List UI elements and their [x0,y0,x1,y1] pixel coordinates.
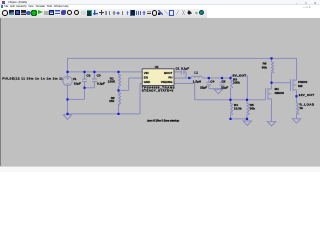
svg-text:1k: 1k [299,106,303,110]
svg-text:NMOS: NMOS [275,90,284,94]
svg-text:10µF: 10µF [74,81,81,85]
svg-text:GND: GND [144,80,150,84]
svg-text:C3: C3 [97,73,101,77]
svg-text:V1: V1 [73,76,77,80]
svg-text:BOOT: BOOT [164,71,173,75]
svg-text:.tran 0 15m 0 2ms startup: .tran 0 15m 0 2ms startup [147,118,180,122]
svg-text:U1: U1 [155,65,159,69]
svg-text:0.1µF: 0.1µF [97,81,105,85]
svg-text:M2: M2 [298,83,303,87]
svg-text:100k: 100k [233,80,240,84]
svg-text:12V_OUT: 12V_OUT [299,93,315,97]
svg-text:L1: L1 [194,70,198,74]
svg-text:C1 0.1µF: C1 0.1µF [175,66,189,70]
svg-text:15k: 15k [109,99,114,103]
svg-text:PULSE(12 11 10m 1n 1n 1m 2m 1): PULSE(12 11 10m 1n 1n 1m 2m 1) [2,76,62,80]
svg-text:VSENSE: VSENSE [161,80,173,84]
svg-text:C4: C4 [210,79,214,83]
svg-text:22µF: 22µF [221,85,228,89]
svg-text:PH: PH [168,75,172,79]
svg-text:130K: 130K [108,79,116,83]
svg-text:22µF: 22µF [200,85,207,89]
svg-text:1.5µH: 1.5µH [193,79,202,83]
svg-text:STEADY_STATE=0: STEADY_STATE=0 [142,88,174,92]
svg-text:50k: 50k [250,106,255,110]
svg-text:VIN: VIN [144,71,149,75]
svg-text:EN: EN [144,75,148,79]
svg-text:C5: C5 [222,79,226,83]
svg-text:C2: C2 [86,73,90,77]
svg-text:13.3k: 13.3k [234,106,242,110]
svg-text:50k: 50k [262,65,267,69]
